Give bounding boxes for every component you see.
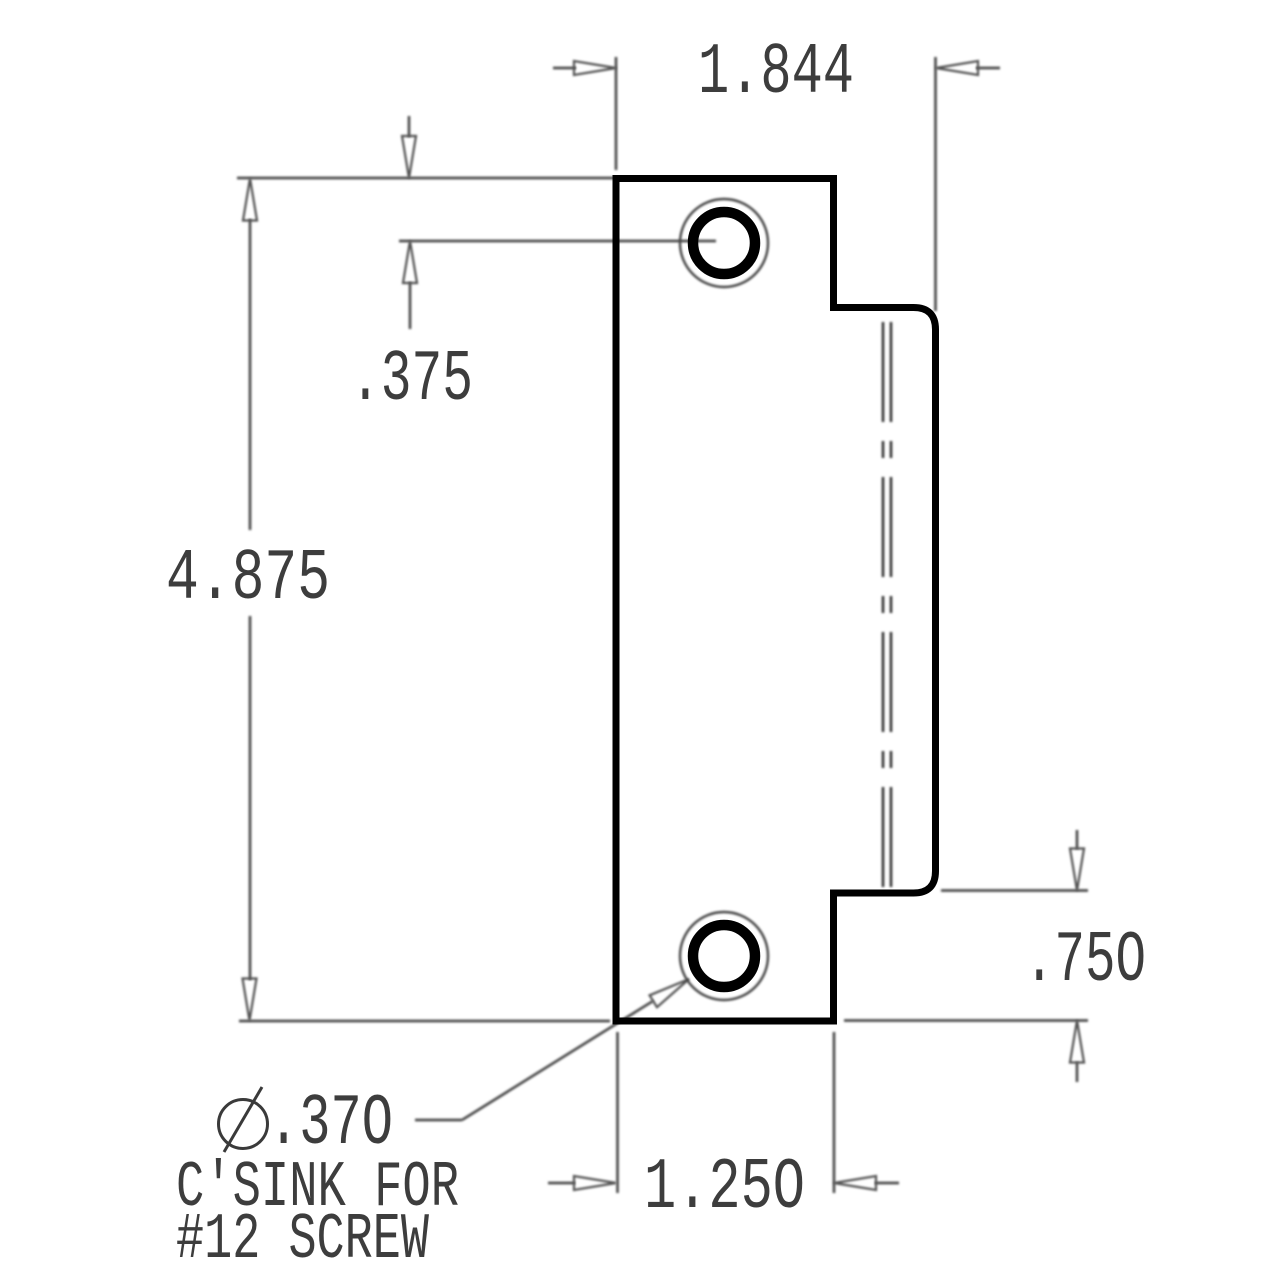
svg-text:4.875: 4.875 <box>166 538 330 620</box>
svg-text:1.844: 1.844 <box>698 32 854 114</box>
svg-text:1.25O: 1.25O <box>644 1147 805 1229</box>
svg-text:.75O: .75O <box>1024 920 1146 1002</box>
svg-text:.375: .375 <box>350 339 473 421</box>
svg-text:#12 SCREW: #12 SCREW <box>176 1203 429 1277</box>
